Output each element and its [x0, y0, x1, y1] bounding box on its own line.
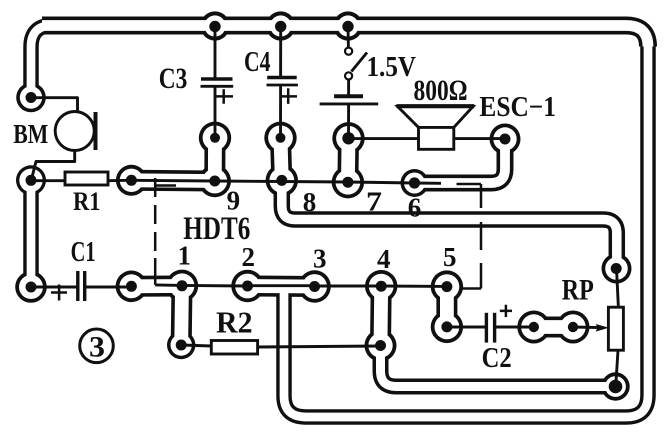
C3 polarity plus [215, 89, 234, 104]
switch lever [351, 53, 367, 72]
wire C2 to dog-bone [495, 326, 534, 329]
pad C4 bottom [264, 122, 296, 154]
svg-text:C2: C2 [482, 343, 512, 374]
svg-text:7: 7 [366, 186, 382, 216]
speaker ESC-1 [398, 107, 473, 150]
wire pin5-lower to C2 [447, 326, 487, 329]
pad pin 9 [199, 165, 231, 197]
pad top-rail at switch [333, 11, 362, 40]
wire track speaker pad to pin 6 (L shape) [415, 139, 506, 183]
wire C4 bottom lead [279, 85, 282, 138]
wire battery to pad [347, 104, 350, 138]
wire track pin4-lower pad to bottom-right pad [381, 346, 616, 387]
wire dog-bone to RP arrow [573, 326, 599, 330]
resistor R2 body [211, 341, 257, 355]
C1 polarity plus [51, 285, 67, 301]
pad bone right to RP wiper [557, 311, 590, 344]
wire pin3 to pin4 [315, 285, 382, 288]
svg-text:1: 1 [178, 241, 192, 271]
pad pin 8 [266, 164, 298, 196]
wire track C3-bottom pad to pin 9 [204, 138, 225, 181]
wire pin4 to pin5 [381, 285, 447, 288]
pad pin 5 lower / C2 left [431, 311, 463, 343]
svg-text:C4: C4 [244, 47, 271, 78]
pad pin 5 [431, 270, 463, 302]
wire switch to battery [347, 80, 350, 97]
pad center dots (hole of every pad above, same order) [26, 21, 623, 394]
C2 polarity plus [500, 305, 512, 317]
pad pin 3 [298, 270, 330, 302]
arrow to RP wiper [596, 324, 609, 332]
C4 polarity plus [280, 88, 298, 104]
wire track pin 5 down [436, 287, 457, 327]
svg-text:R1: R1 [73, 187, 101, 216]
svg-text:ESC−1: ESC−1 [479, 92, 556, 123]
wire track pin 2 to pin 3 [248, 276, 315, 298]
pad pin 6 [401, 169, 429, 197]
svg-text:BM: BM [13, 119, 48, 149]
wire ground track right and bottom [284, 40, 648, 417]
wire pin1 to pin2 [155, 285, 247, 286]
svg-text:5: 5 [443, 242, 457, 272]
wire RP bottom to pad [616, 351, 618, 387]
wire C3 bottom lead [214, 87, 217, 138]
wire track C1-right pad to pin 1 [131, 276, 182, 297]
pad top-rail at C3 [200, 11, 229, 40]
switch contacts [345, 48, 352, 55]
pad RP top [602, 254, 632, 284]
svg-text:R2: R2 [216, 305, 253, 340]
pad top-rail at C4 [266, 11, 295, 40]
svg-text:3: 3 [313, 244, 327, 274]
wire C1 leads [31, 286, 78, 289]
potentiometer RP body [608, 307, 623, 350]
pad pin 1 [166, 270, 198, 302]
svg-text:RP: RP [562, 274, 594, 307]
pad RP bottom [601, 372, 629, 400]
ic outline top edge dashes [155, 184, 176, 187]
wire R1 leads [31, 179, 65, 182]
ic outline bottom-right dash [462, 287, 481, 290]
svg-text:6: 6 [408, 193, 422, 223]
wire RP top pad to RP [617, 269, 619, 308]
pads (inner white fill, rendering layer) [19, 15, 628, 397]
pad C2 right bone left [517, 311, 550, 344]
wire track C4-bottom pad to pin 8 [281, 138, 282, 181]
battery cell plates [334, 94, 363, 98]
wire track battery pad to pin 7 [337, 138, 359, 182]
capacitor C2 plates [485, 313, 488, 343]
pad R2 left [167, 331, 195, 359]
wire C3 top lead [214, 26, 217, 79]
pad BM plus (top left) [16, 83, 46, 113]
svg-text:HDT6: HDT6 [183, 211, 250, 247]
svg-text:3: 3 [89, 331, 105, 364]
wire pin2 to pin3 inner [248, 284, 315, 287]
pad C1 right [116, 271, 148, 303]
wire track pin 1 down to R2-left pad [171, 286, 193, 345]
pad speaker right [490, 124, 521, 155]
wire BM bottom to pad [32, 150, 75, 178]
capacitor C1 plates [76, 271, 79, 301]
capacitor C4 plates [267, 76, 297, 80]
svg-text:8: 8 [303, 187, 317, 217]
wire track pad chain left (R1 pad to C1 pad) [23, 180, 39, 287]
wire C4 top lead [279, 26, 282, 76]
wire track pin 8 to RP-top pad (long run) [282, 181, 617, 268]
wire track pin 4 down [370, 286, 392, 345]
pad C1 left [15, 271, 47, 303]
microphone BM [55, 112, 94, 151]
svg-text:2: 2 [242, 242, 256, 272]
pad pin 7 [332, 166, 364, 198]
pad C3 bottom [199, 122, 231, 154]
pad R1 right [116, 165, 147, 196]
svg-text:800Ω: 800Ω [414, 74, 468, 107]
svg-text:C1: C1 [71, 236, 96, 268]
wire R2 leads [181, 345, 211, 346]
svg-text:C3: C3 [159, 62, 188, 95]
svg-text:1.5V: 1.5V [367, 51, 417, 83]
capacitor C3 plates [201, 77, 233, 81]
wire R1 pad to pin 9, pin9-pin8, pin8-pin7, pin7-pin6 [131, 180, 441, 183]
pad pin 4 lower [365, 330, 397, 362]
wire BM top: left pad to mic [31, 98, 78, 112]
wire track R1-right pad to pin 9 [131, 170, 214, 192]
wire switch top [347, 26, 350, 48]
resistor R1 body [65, 172, 108, 185]
wire battery pad to speaker [349, 137, 419, 140]
figure number 3 circled [80, 329, 114, 363]
wire ground track left chain [31, 26, 60, 98]
pad pin 4 [365, 270, 397, 302]
pad pin 2 [231, 270, 263, 302]
svg-text:4: 4 [377, 244, 391, 274]
wire track C2 to RP (dog-bone) [534, 317, 573, 338]
pad BM minus / R1 left [16, 165, 46, 195]
wire speaker to right pad [454, 137, 505, 140]
wire ground track top rail [42, 26, 648, 47]
pad battery minus [332, 122, 364, 154]
ic outline left edge (dashed) [154, 178, 157, 285]
ic outline right edge (dashed) [480, 184, 483, 208]
